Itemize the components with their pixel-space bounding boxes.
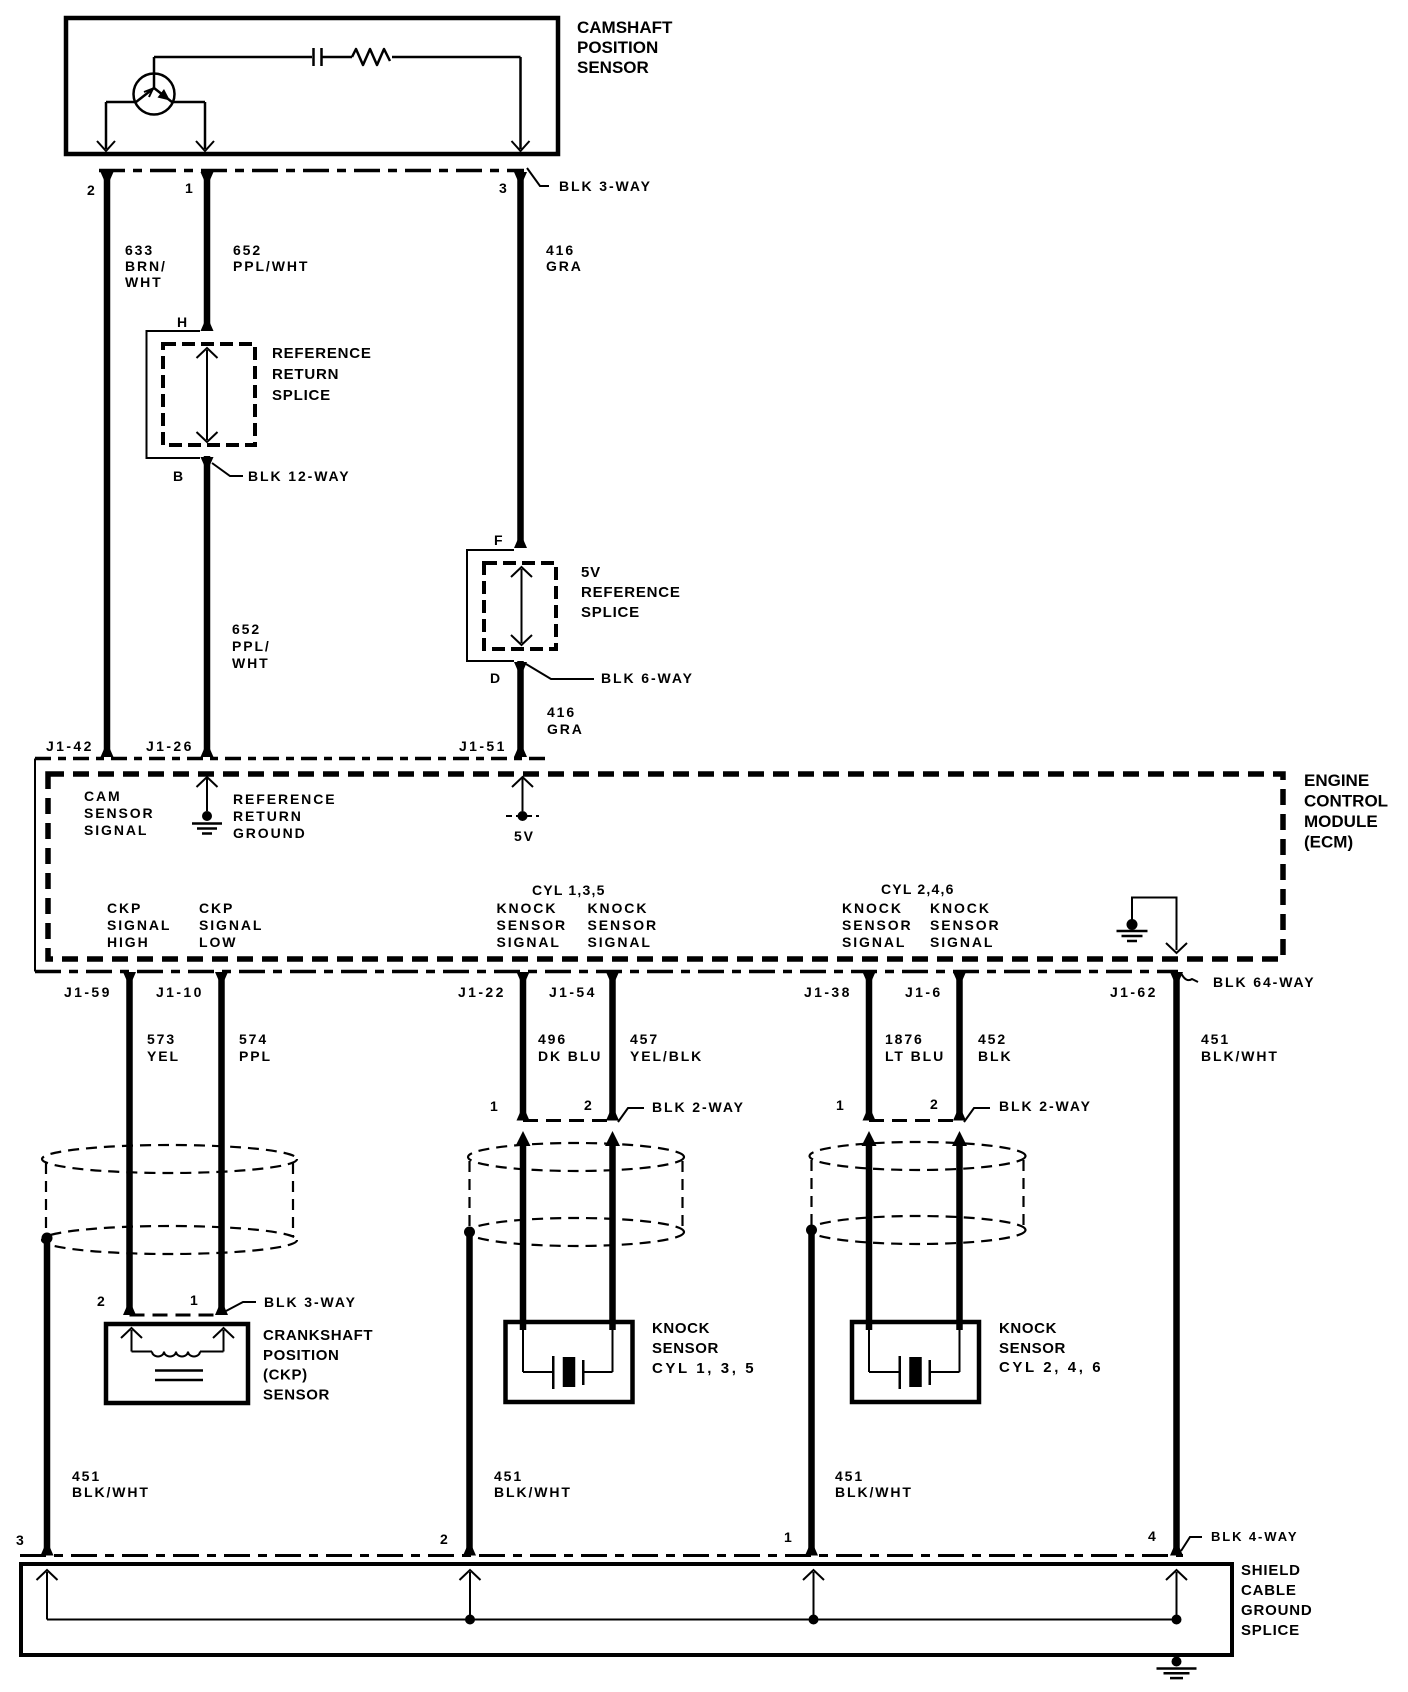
- svg-text:BLK/WHT: BLK/WHT: [835, 1484, 913, 1500]
- svg-text:WHT: WHT: [125, 274, 163, 290]
- svg-text:PPL/: PPL/: [232, 638, 271, 654]
- svg-text:CYL 2,4,6: CYL 2,4,6: [881, 881, 955, 897]
- svg-text:SPLICE: SPLICE: [272, 387, 331, 404]
- svg-text:633: 633: [125, 242, 154, 258]
- svg-text:SIGNAL: SIGNAL: [84, 822, 148, 838]
- svg-text:LOW: LOW: [199, 934, 237, 950]
- svg-text:SENSOR: SENSOR: [84, 805, 155, 821]
- svg-text:SPLICE: SPLICE: [581, 604, 640, 621]
- svg-text:2: 2: [930, 1096, 940, 1112]
- svg-text:SIGNAL: SIGNAL: [930, 934, 994, 950]
- svg-text:1: 1: [190, 1292, 200, 1308]
- svg-text:496: 496: [538, 1031, 567, 1047]
- svg-text:BLK 4-WAY: BLK 4-WAY: [1211, 1529, 1298, 1544]
- svg-text:SIGNAL: SIGNAL: [199, 917, 263, 933]
- svg-text:J1-22: J1-22: [458, 984, 506, 1000]
- svg-text:POSITION: POSITION: [577, 38, 658, 57]
- svg-text:SHIELD: SHIELD: [1241, 1562, 1301, 1579]
- svg-text:452: 452: [978, 1031, 1007, 1047]
- svg-text:RETURN: RETURN: [233, 808, 303, 824]
- svg-text:REFERENCE: REFERENCE: [272, 345, 372, 362]
- svg-text:POSITION: POSITION: [263, 1347, 339, 1364]
- svg-text:BLK/WHT: BLK/WHT: [72, 1484, 150, 1500]
- svg-text:GRA: GRA: [546, 258, 583, 274]
- svg-text:SENSOR: SENSOR: [263, 1386, 330, 1403]
- svg-text:BLK 6-WAY: BLK 6-WAY: [601, 670, 694, 686]
- svg-text:J1-42: J1-42: [46, 738, 94, 754]
- svg-text:BLK/WHT: BLK/WHT: [1201, 1048, 1279, 1064]
- svg-text:SENSOR: SENSOR: [577, 58, 649, 77]
- svg-text:SENSOR: SENSOR: [588, 917, 659, 933]
- svg-text:2: 2: [440, 1531, 450, 1547]
- svg-text:HIGH: HIGH: [107, 934, 150, 950]
- svg-text:BLK 2-WAY: BLK 2-WAY: [652, 1099, 745, 1115]
- svg-text:(ECM): (ECM): [1304, 833, 1353, 852]
- svg-text:1: 1: [490, 1098, 500, 1114]
- svg-text:GRA: GRA: [547, 721, 584, 737]
- svg-text:457: 457: [630, 1031, 659, 1047]
- svg-text:1: 1: [784, 1529, 794, 1545]
- svg-text:CKP: CKP: [107, 900, 142, 916]
- svg-text:1: 1: [185, 180, 195, 196]
- svg-text:SENSOR: SENSOR: [652, 1340, 719, 1357]
- svg-text:KNOCK: KNOCK: [652, 1320, 710, 1337]
- svg-text:1: 1: [836, 1097, 846, 1113]
- svg-text:5V: 5V: [514, 828, 535, 844]
- svg-text:CYL 1, 3, 5: CYL 1, 3, 5: [652, 1360, 756, 1377]
- svg-text:H: H: [177, 314, 189, 330]
- svg-text:3: 3: [16, 1532, 26, 1548]
- svg-text:SIGNAL: SIGNAL: [107, 917, 171, 933]
- svg-text:J1-62: J1-62: [1110, 984, 1158, 1000]
- svg-text:BLK 2-WAY: BLK 2-WAY: [999, 1098, 1092, 1114]
- svg-text:2: 2: [584, 1097, 594, 1113]
- svg-text:SIGNAL: SIGNAL: [588, 934, 652, 950]
- svg-text:2: 2: [87, 182, 97, 198]
- svg-text:KNOCK: KNOCK: [999, 1320, 1057, 1337]
- svg-text:CKP: CKP: [199, 900, 234, 916]
- svg-text:4: 4: [1148, 1528, 1158, 1544]
- svg-text:PPL: PPL: [239, 1048, 272, 1064]
- svg-text:CAM: CAM: [84, 788, 122, 804]
- svg-text:1876: 1876: [885, 1031, 924, 1047]
- svg-text:574: 574: [239, 1031, 268, 1047]
- svg-text:451: 451: [1201, 1031, 1230, 1047]
- svg-text:573: 573: [147, 1031, 176, 1047]
- svg-text:GROUND: GROUND: [233, 825, 307, 841]
- svg-text:KNOCK: KNOCK: [497, 900, 558, 916]
- svg-text:BLK/WHT: BLK/WHT: [494, 1484, 572, 1500]
- svg-text:CRANKSHAFT: CRANKSHAFT: [263, 1327, 373, 1344]
- svg-text:D: D: [490, 670, 502, 686]
- svg-text:CABLE: CABLE: [1241, 1582, 1297, 1599]
- svg-text:BRN/: BRN/: [125, 258, 167, 274]
- svg-text:SIGNAL: SIGNAL: [497, 934, 561, 950]
- svg-text:BLK 12-WAY: BLK 12-WAY: [248, 468, 351, 484]
- svg-text:451: 451: [835, 1468, 864, 1484]
- svg-text:2: 2: [97, 1293, 107, 1309]
- svg-text:WHT: WHT: [232, 655, 270, 671]
- svg-text:J1-38: J1-38: [804, 984, 852, 1000]
- svg-text:CYL 2, 4, 6: CYL 2, 4, 6: [999, 1359, 1103, 1376]
- svg-text:J1-59: J1-59: [64, 984, 112, 1000]
- svg-text:REFERENCE: REFERENCE: [233, 791, 336, 807]
- svg-text:REFERENCE: REFERENCE: [581, 584, 681, 601]
- svg-text:J1-6: J1-6: [905, 984, 943, 1000]
- svg-text:SENSOR: SENSOR: [497, 917, 568, 933]
- svg-text:J1-54: J1-54: [549, 984, 597, 1000]
- svg-text:F: F: [494, 532, 504, 548]
- svg-text:CONTROL: CONTROL: [1304, 792, 1388, 811]
- svg-text:BLK 3-WAY: BLK 3-WAY: [264, 1294, 357, 1310]
- svg-text:CYL 1,3,5: CYL 1,3,5: [532, 882, 606, 898]
- svg-text:B: B: [173, 468, 185, 484]
- svg-text:SENSOR: SENSOR: [930, 917, 1001, 933]
- svg-text:J1-51: J1-51: [459, 738, 507, 754]
- svg-text:416: 416: [546, 242, 575, 258]
- svg-text:652: 652: [233, 242, 262, 258]
- svg-text:J1-26: J1-26: [146, 738, 194, 754]
- svg-text:SPLICE: SPLICE: [1241, 1622, 1300, 1639]
- svg-text:SIGNAL: SIGNAL: [842, 934, 906, 950]
- svg-text:RETURN: RETURN: [272, 366, 339, 383]
- svg-text:451: 451: [494, 1468, 523, 1484]
- svg-text:GROUND: GROUND: [1241, 1602, 1312, 1619]
- svg-text:652: 652: [232, 621, 261, 637]
- svg-text:BLK: BLK: [978, 1048, 1012, 1064]
- svg-text:SENSOR: SENSOR: [999, 1340, 1066, 1357]
- svg-text:CAMSHAFT: CAMSHAFT: [577, 18, 673, 37]
- svg-text:ENGINE: ENGINE: [1304, 771, 1369, 790]
- svg-text:LT BLU: LT BLU: [885, 1048, 945, 1064]
- svg-text:PPL/WHT: PPL/WHT: [233, 258, 309, 274]
- svg-text:SENSOR: SENSOR: [842, 917, 913, 933]
- svg-text:DK BLU: DK BLU: [538, 1048, 602, 1064]
- svg-text:416: 416: [547, 704, 576, 720]
- svg-text:MODULE: MODULE: [1304, 812, 1378, 831]
- svg-text:451: 451: [72, 1468, 101, 1484]
- svg-text:BLK 64-WAY: BLK 64-WAY: [1213, 974, 1316, 990]
- svg-text:3: 3: [499, 180, 509, 196]
- svg-text:YEL: YEL: [147, 1048, 180, 1064]
- svg-text:KNOCK: KNOCK: [842, 900, 903, 916]
- svg-text:BLK 3-WAY: BLK 3-WAY: [559, 178, 652, 194]
- svg-text:KNOCK: KNOCK: [588, 900, 649, 916]
- svg-text:YEL/BLK: YEL/BLK: [630, 1048, 703, 1064]
- svg-text:5V: 5V: [581, 564, 601, 581]
- svg-text:J1-10: J1-10: [156, 984, 204, 1000]
- svg-text:(CKP): (CKP): [263, 1367, 308, 1384]
- svg-text:KNOCK: KNOCK: [930, 900, 991, 916]
